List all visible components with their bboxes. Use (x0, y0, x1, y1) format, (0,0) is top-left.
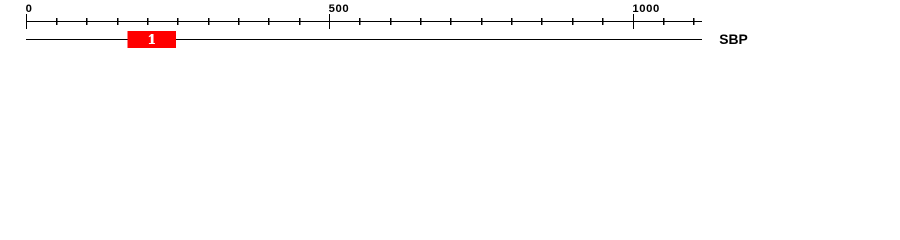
svg-text:0: 0 (26, 3, 33, 15)
ruler major tick 0 (26, 14, 27, 29)
ruler minor tick 700 (450, 18, 452, 25)
ruler minor tick 900 (572, 18, 574, 25)
svg-text:500: 500 (329, 3, 350, 15)
svg-text:1000: 1000 (632, 3, 660, 15)
domain box 1 (red) (128, 31, 177, 48)
ruler minor tick 300 (208, 18, 210, 25)
ruler major tick 1000 (633, 14, 634, 29)
ruler minor tick 150 (117, 18, 119, 25)
ruler minor tick 800 (511, 18, 513, 25)
ruler minor tick 100 (86, 18, 88, 25)
ruler minor tick 1100 (693, 18, 695, 25)
ruler minor tick 1050 (663, 18, 665, 25)
protein backbone line (26, 39, 702, 40)
ruler minor tick 850 (541, 18, 543, 25)
ruler axis line (26, 21, 702, 22)
ruler major tick 500 (329, 14, 330, 29)
domain box label 1: white digit stem (151, 34, 154, 44)
ruler minor tick 550 (359, 18, 361, 25)
ruler minor tick 350 (238, 18, 240, 25)
ruler minor tick 250 (177, 18, 179, 25)
ruler minor tick 600 (390, 18, 392, 25)
ruler minor tick 200 (147, 18, 149, 25)
ruler minor tick 650 (420, 18, 422, 25)
ruler minor tick 450 (299, 18, 301, 25)
domain box label 1: white digit flag (149, 34, 151, 37)
domain box label 1: white digit base serif (149, 43, 155, 44)
ruler minor tick 950 (602, 18, 604, 25)
ruler minor tick 50 (56, 18, 58, 25)
ruler minor tick 750 (481, 18, 483, 25)
svg-text:SBP: SBP (719, 31, 748, 47)
ruler minor tick 400 (268, 18, 270, 25)
